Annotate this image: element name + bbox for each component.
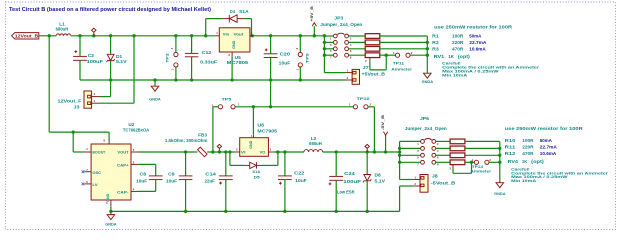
- svg-text:CAP+: CAP+: [117, 162, 129, 167]
- svg-text:Low ESR: Low ESR: [337, 190, 355, 195]
- svg-text:C2: C2: [88, 53, 95, 58]
- svg-text:GNDA: GNDA: [494, 191, 506, 196]
- svg-text:U6: U6: [257, 122, 265, 127]
- svg-text:R10: R10: [505, 138, 516, 143]
- svg-text:C22: C22: [294, 171, 305, 176]
- svg-text:Ammeter: Ammeter: [391, 67, 412, 72]
- svg-text:C14: C14: [205, 171, 217, 176]
- svg-text:GNDA: GNDA: [149, 96, 161, 101]
- svg-text:R12: R12: [505, 151, 516, 156]
- svg-text:100R: 100R: [452, 34, 464, 39]
- svg-text:+5V_B: +5V_B: [309, 6, 314, 22]
- svg-text:J7: J7: [363, 65, 370, 70]
- svg-text:GND: GND: [232, 40, 236, 48]
- svg-text:220R: 220R: [522, 145, 534, 150]
- svg-text:S1A: S1A: [252, 169, 260, 174]
- svg-text:CAP-: CAP-: [117, 189, 129, 194]
- svg-text:LV: LV: [92, 182, 98, 187]
- svg-text:C8: C8: [140, 171, 147, 176]
- svg-text:TP9: TP9: [305, 52, 310, 63]
- svg-text:100R: 100R: [522, 138, 534, 143]
- svg-text:TC7662BxOA: TC7662BxOA: [123, 128, 149, 133]
- svg-text:10.6mA: 10.6mA: [540, 151, 557, 156]
- svg-text:1.5kOhm; 300mOhm: 1.5kOhm; 300mOhm: [165, 138, 208, 143]
- svg-text:100uF: 100uF: [87, 59, 104, 64]
- svg-text:D8: D8: [375, 172, 382, 177]
- svg-text:10.6mA: 10.6mA: [469, 46, 486, 51]
- svg-text:R11: R11: [505, 145, 516, 150]
- svg-text:GNDA: GNDA: [422, 79, 434, 84]
- svg-text:Min 10mA: Min 10mA: [511, 178, 536, 183]
- svg-text:470R: 470R: [452, 46, 464, 51]
- svg-text:C24: C24: [344, 171, 355, 176]
- svg-text:Jumper_2x4_Open: Jumper_2x4_Open: [405, 126, 447, 131]
- svg-text:MC7905: MC7905: [257, 129, 277, 134]
- svg-text:use 250mW resistor for 100R: use 250mW resistor for 100R: [434, 24, 513, 29]
- svg-text:JP3: JP3: [334, 15, 344, 20]
- svg-text:D5: D5: [254, 174, 261, 179]
- svg-text:Ammeter: Ammeter: [470, 169, 491, 174]
- svg-text:BOOST: BOOST: [92, 149, 105, 154]
- svg-text:TP2: TP2: [165, 52, 170, 63]
- svg-text:470R: 470R: [522, 151, 534, 156]
- svg-text:JP6: JP6: [420, 116, 430, 121]
- svg-text:GNDA: GNDA: [105, 222, 117, 227]
- svg-text:FB3: FB3: [198, 133, 208, 138]
- svg-text:12Vout_F: 12Vout_F: [58, 98, 82, 103]
- svg-text:10uF: 10uF: [279, 60, 291, 65]
- svg-text:-5V_B: -5V_B: [380, 115, 385, 131]
- svg-text:GND: GND: [106, 193, 110, 201]
- svg-text:(opt): (opt): [531, 159, 544, 164]
- svg-text:U2: U2: [128, 122, 135, 127]
- svg-text:-5Vout_B: -5Vout_B: [431, 181, 455, 186]
- svg-text:100uF: 100uF: [343, 179, 361, 184]
- svg-text:22uF: 22uF: [205, 178, 216, 183]
- svg-text:680uH: 680uH: [309, 141, 322, 146]
- svg-text:50mA: 50mA: [469, 34, 482, 39]
- svg-text:220R: 220R: [452, 40, 464, 45]
- svg-text:MC7805: MC7805: [227, 60, 249, 65]
- svg-text:+5Vout_B: +5Vout_B: [362, 72, 385, 77]
- svg-text:Min 10mA: Min 10mA: [442, 72, 467, 77]
- svg-text:J8: J8: [432, 174, 439, 179]
- svg-text:5.1V: 5.1V: [116, 59, 127, 64]
- svg-text:50mA: 50mA: [540, 138, 553, 143]
- svg-text:OSC: OSC: [92, 170, 101, 175]
- svg-text:GND: GND: [249, 140, 253, 148]
- svg-text:use 250mW resistor for 100R: use 250mW resistor for 100R: [505, 126, 584, 131]
- svg-text:J3: J3: [74, 105, 81, 110]
- svg-text:Jumper_2x4_Open: Jumper_2x4_Open: [320, 22, 362, 27]
- svg-text:TP11: TP11: [393, 61, 405, 66]
- svg-text:680uH: 680uH: [56, 26, 69, 31]
- svg-text:10uF: 10uF: [295, 178, 307, 183]
- svg-text:RV4: RV4: [508, 159, 519, 164]
- svg-text:R3: R3: [432, 46, 439, 51]
- svg-text:22.7mA: 22.7mA: [540, 145, 558, 150]
- svg-text:C12: C12: [202, 50, 213, 55]
- svg-text:22.7mA: 22.7mA: [469, 40, 487, 45]
- svg-text:(opt): (opt): [458, 54, 471, 59]
- svg-text:TP10: TP10: [357, 96, 371, 101]
- svg-text:C9: C9: [168, 171, 175, 176]
- svg-text:5.1V: 5.1V: [375, 179, 386, 184]
- svg-text:D4: D4: [230, 9, 236, 14]
- svg-text:C20: C20: [280, 52, 291, 57]
- svg-text:VI: VI: [241, 149, 246, 154]
- svg-text:Test Circuit B (based on a fil: Test Circuit B (based on a filtered powe…: [9, 7, 211, 13]
- svg-text:12Vout_B: 12Vout_B: [15, 33, 38, 38]
- svg-text:S1A: S1A: [239, 9, 248, 14]
- svg-text:VO: VO: [260, 149, 266, 154]
- svg-text:1K: 1K: [448, 54, 454, 59]
- svg-text:10uF: 10uF: [166, 178, 178, 183]
- svg-text:0.33uF: 0.33uF: [200, 60, 217, 65]
- svg-text:Vin: Vin: [223, 31, 230, 36]
- svg-text:RV1: RV1: [434, 54, 445, 59]
- svg-text:10uF: 10uF: [136, 178, 148, 183]
- svg-text:Vout: Vout: [234, 31, 244, 36]
- svg-text:1K: 1K: [522, 159, 528, 164]
- svg-text:R2: R2: [432, 40, 439, 45]
- svg-text:R1: R1: [432, 34, 439, 39]
- svg-text:VOUT: VOUT: [117, 149, 129, 154]
- svg-text:TP5: TP5: [222, 96, 233, 101]
